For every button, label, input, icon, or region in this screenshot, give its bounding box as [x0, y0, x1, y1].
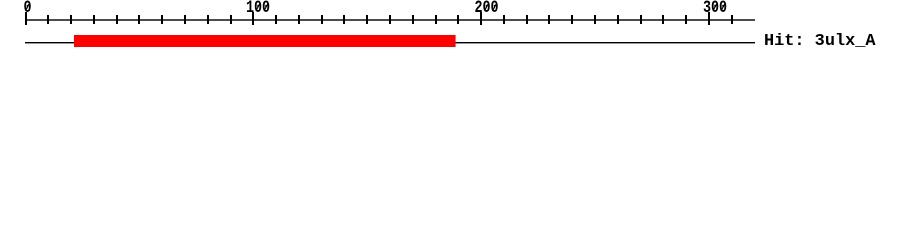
- zero slash: [26, 4, 29, 10]
- minor tick 230: [548, 15, 550, 24]
- minor tick 260: [617, 15, 619, 24]
- svg-text:200: 200: [474, 0, 498, 18]
- major tick 0: [25, 12, 27, 25]
- minor tick 70: [184, 15, 186, 24]
- minor tick 90: [230, 15, 232, 24]
- minor tick 140: [343, 15, 345, 24]
- svg-text:100: 100: [246, 0, 270, 18]
- minor tick 80: [207, 15, 209, 24]
- minor tick 130: [321, 15, 323, 24]
- minor tick 160: [389, 15, 391, 24]
- ruler axis line: [25, 19, 755, 20]
- minor tick 290: [685, 15, 687, 24]
- minor tick 180: [435, 15, 437, 24]
- minor tick 170: [412, 15, 414, 24]
- minor tick 150: [366, 15, 368, 24]
- major tick 100: [252, 12, 254, 25]
- zero slash: [713, 4, 716, 10]
- zero slash: [722, 4, 725, 10]
- minor tick 270: [640, 15, 642, 24]
- minor tick 240: [571, 15, 573, 24]
- minor tick 210: [503, 15, 505, 24]
- minor tick 190: [457, 15, 459, 24]
- svg-text:0: 0: [23, 0, 31, 18]
- major tick 200: [480, 12, 482, 25]
- zero slash: [256, 4, 259, 10]
- zero slash: [485, 4, 488, 10]
- major tick 300: [708, 12, 710, 25]
- zero slash: [493, 4, 496, 10]
- minor tick 60: [161, 15, 163, 24]
- minor tick 110: [275, 15, 277, 24]
- minor tick 280: [662, 15, 664, 24]
- minor tick 50: [138, 15, 140, 24]
- minor tick 40: [116, 15, 118, 24]
- background: [0, 0, 900, 60]
- query sequence line: [25, 42, 755, 43]
- minor tick 250: [594, 15, 596, 24]
- minor tick 30: [93, 15, 95, 24]
- svg-text:Hit: 3ulx_A: Hit: 3ulx_A: [764, 32, 876, 51]
- minor tick 120: [298, 15, 300, 24]
- minor tick 20: [70, 15, 72, 24]
- svg-text:300: 300: [703, 0, 727, 18]
- zero slash: [265, 4, 268, 10]
- minor tick 220: [526, 15, 528, 24]
- minor tick 310: [731, 15, 733, 24]
- minor tick 10: [47, 15, 49, 24]
- hit alignment bar: [74, 35, 456, 47]
